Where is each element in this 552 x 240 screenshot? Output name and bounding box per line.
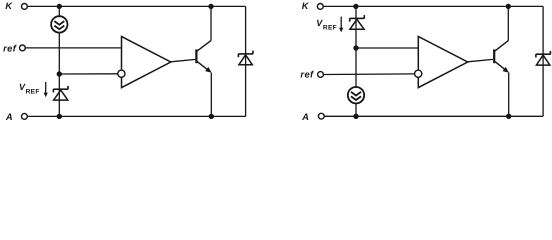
junction bias chain / A rail (right)	[353, 114, 358, 119]
svg-text:ref: ref	[3, 43, 17, 54]
zener diode VREF (left)	[53, 86, 68, 100]
terminal ref (right)	[318, 72, 324, 78]
wire bias chain upper segment (right)	[355, 6, 357, 87]
arrow VREF direction (left)	[44, 82, 48, 97]
svg-text:K: K	[302, 1, 310, 11]
wire right side vertical (left circuit)	[245, 6, 247, 116]
terminal K (right)	[317, 4, 323, 10]
svg-text:ref: ref	[300, 69, 314, 80]
wire bottom (left, A rail)	[27, 115, 245, 117]
wire op-amp output to base (left)	[171, 59, 196, 61]
zener diode VREF (right)	[350, 15, 365, 29]
diode D1 (left, K-A clamp)	[238, 51, 253, 65]
junction collector / K rail (right)	[506, 4, 511, 9]
terminal A (right)	[318, 113, 324, 119]
wire emitter (right)	[508, 73, 510, 117]
current source I1 (right)	[348, 87, 364, 103]
svg-text:REF: REF	[323, 25, 337, 32]
junction emitter / A rail (left)	[209, 114, 214, 119]
svg-text:A: A	[5, 111, 13, 122]
wire top (left, K rail)	[27, 5, 245, 7]
junction inverting input tap (left)	[57, 71, 62, 76]
wire top (right, K rail)	[323, 5, 543, 7]
transistor Q1 (right, NPN)	[494, 41, 509, 73]
wire bottom (right, A rail)	[324, 115, 543, 117]
terminal A (left)	[22, 114, 28, 120]
wire right side vertical (right circuit)	[542, 6, 544, 116]
current source I1 (left)	[51, 16, 67, 32]
wire bias chain lower segment (right)	[355, 103, 357, 116]
junction K / bias chain (left)	[57, 4, 62, 9]
wire collector (right)	[507, 6, 509, 40]
transistor Q1 (left, NPN)	[196, 41, 211, 73]
diode D1 (right, K-A clamp)	[536, 51, 551, 65]
junction emitter / A rail (right)	[506, 114, 511, 119]
wire ref input (left, to op-amp + input)	[25, 47, 121, 49]
svg-text:REF: REF	[26, 89, 40, 96]
terminal K (left)	[22, 4, 28, 10]
op-amp U1 (left)	[118, 37, 171, 88]
wire collector (left)	[210, 6, 212, 40]
wire bias chain lower segment (left)	[58, 32, 60, 116]
junction K / bias chain (right)	[353, 4, 358, 9]
svg-text:K: K	[5, 1, 13, 11]
svg-text:A: A	[301, 111, 309, 122]
wire emitter (left)	[210, 73, 212, 117]
wire inverting input (left)	[59, 73, 118, 75]
arrow VREF direction (right)	[339, 17, 343, 33]
wire op-amp + input (right)	[356, 47, 418, 49]
junction bias chain / A rail (left)	[57, 114, 62, 119]
wire ref input (right, to op-amp - input)	[324, 73, 415, 76]
junction collector / K rail (left)	[208, 4, 213, 9]
wire bias chain upper segment (left)	[58, 6, 60, 16]
op-amp U1 (right)	[415, 37, 468, 88]
terminal ref (left)	[20, 45, 26, 51]
wire op-amp output to base (right)	[468, 59, 493, 61]
junction zener / op-amp + input (right)	[353, 45, 358, 50]
